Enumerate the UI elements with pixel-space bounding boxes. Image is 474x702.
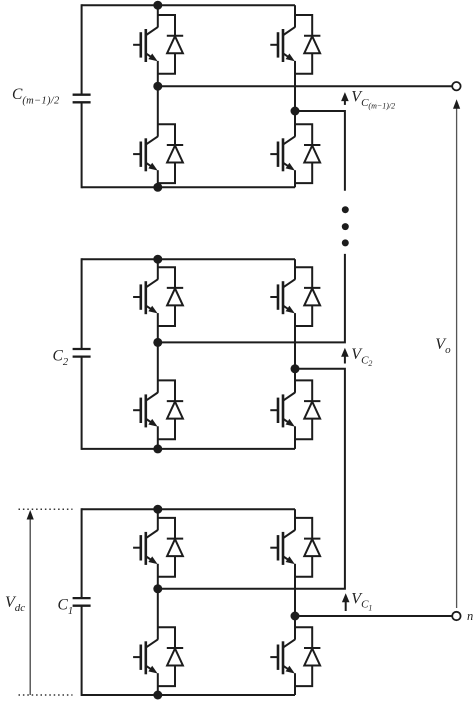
wire: emitter lead Q11 [157, 564, 159, 589]
wire: collector lead Q24 [294, 369, 296, 393]
wire: bridge 2 left rail lower [81, 357, 83, 450]
wire: collector lead Q11 [157, 509, 159, 530]
wire: emitter lead Q32 [157, 170, 159, 187]
capacitor C3 [73, 95, 91, 103]
igbt Q21 [133, 279, 158, 314]
wire: ellipsis down to A2 [158, 254, 345, 343]
wire: bridge 2 top rail [82, 258, 295, 260]
igbt Q12 [133, 639, 158, 674]
wire: diode branch top Q11 [158, 518, 175, 539]
diode D13 [304, 539, 320, 557]
voltage arrow V_C1 [342, 593, 350, 611]
wire: diode branch bottom Q31 [158, 53, 175, 74]
wire: diode branch bottom Q23 [295, 305, 312, 326]
node A1: bridge 1 left midpoint [153, 584, 162, 593]
wire: diode branch top Q14 [295, 627, 312, 648]
wire: collector lead Q33 [294, 5, 296, 27]
wire: bridge 2 left rail upper [81, 258, 83, 349]
igbt Q34 [270, 136, 295, 171]
dotted extension line top [19, 508, 73, 510]
wire: diode branch bottom Q21 [158, 305, 175, 326]
junction: bridge 3 top rail / left leg [153, 1, 162, 10]
diode D33 [304, 36, 320, 54]
ellipsis dot 3 [342, 239, 349, 246]
diode D21 [167, 288, 183, 306]
diode D11 [167, 539, 183, 557]
wire: emitter lead Q33 [294, 61, 296, 111]
node A3: bridge 3 left midpoint [153, 82, 162, 91]
diode D31 [167, 36, 183, 54]
wire: diode branch bottom Q12 [158, 666, 175, 687]
wire: diode branch bottom Q32 [158, 163, 175, 184]
wire: collector lead Q23 [294, 259, 296, 279]
wire: diode branch top Q34 [295, 124, 312, 145]
junction: bridge 2 top rail / left leg [153, 255, 162, 264]
ellipsis dot 1 [342, 206, 349, 213]
wire: bridge 1 top rail [82, 508, 295, 510]
wire: B2 down to A1 [158, 369, 345, 589]
diode D23 [304, 288, 320, 306]
wire: collector lead Q32 [157, 86, 159, 137]
wire: bridge 1 left rail lower [81, 606, 83, 696]
junction: bridge 2 bottom rail / left leg [153, 444, 162, 453]
dotted extension line bottom [19, 694, 73, 696]
wire: diode branch bottom Q11 [158, 556, 175, 577]
wire: B1 to terminal n [295, 615, 452, 617]
igbt Q24 [270, 393, 295, 428]
igbt Q11 [133, 530, 158, 565]
wire: diode branch bottom Q22 [158, 419, 175, 440]
voltage arrow V_C2 [341, 348, 349, 364]
diode D22 [167, 401, 183, 419]
capacitor C1 [73, 598, 91, 606]
wire: diode branch top Q13 [295, 518, 312, 539]
wire: diode branch bottom Q24 [295, 419, 312, 440]
wire: emitter lead Q23 [294, 313, 296, 369]
ellipsis dot 2 [342, 223, 349, 230]
wire: diode branch top Q22 [158, 380, 175, 401]
terminal n (output -) [452, 612, 460, 620]
igbt Q13 [270, 530, 295, 565]
wire: collector lead Q22 [157, 342, 159, 392]
voltage arrow V_dc [27, 510, 34, 695]
igbt Q33 [270, 27, 295, 62]
diode D12 [167, 648, 183, 666]
diode D32 [167, 145, 183, 163]
wire: diode branch top Q31 [158, 15, 175, 36]
wire: emitter lead Q24 [294, 426, 296, 449]
wire: B3 down to ellipsis [295, 111, 345, 191]
junction: bridge 1 bottom rail / left leg [153, 691, 162, 700]
wire: emitter lead Q21 [157, 313, 159, 342]
wire: bridge 3 left rail lower [81, 102, 83, 188]
wire: bridge 3 bottom rail [82, 186, 295, 188]
diode D14 [304, 648, 320, 666]
wire: collector lead Q31 [157, 5, 159, 27]
wire: diode branch top Q33 [295, 15, 312, 36]
wire: diode branch bottom Q33 [295, 53, 312, 74]
junction: bridge 3 bottom rail / left leg [153, 183, 162, 192]
wire: bridge 3 left rail upper [81, 4, 83, 95]
wire: emitter lead Q12 [157, 673, 159, 695]
svg-text:n: n [467, 609, 473, 623]
wire: diode branch top Q24 [295, 380, 312, 401]
wire: A3 output to terminal p [158, 85, 452, 87]
wire: collector lead Q14 [294, 616, 296, 640]
node B1: bridge 1 right midpoint [291, 612, 300, 621]
igbt Q32 [133, 136, 158, 171]
wire: bridge 2 bottom rail [82, 448, 295, 450]
wire: emitter lead Q14 [294, 673, 296, 695]
wire: diode branch bottom Q14 [295, 666, 312, 687]
diode D34 [304, 145, 320, 163]
voltage arrow V_o [453, 99, 460, 608]
node B3: bridge 3 right midpoint [291, 107, 300, 116]
wire: collector lead Q13 [294, 509, 296, 530]
node B2: bridge 2 right midpoint [291, 364, 300, 373]
wire: diode branch top Q12 [158, 627, 175, 648]
wire: diode branch bottom Q13 [295, 556, 312, 577]
wire: collector lead Q34 [294, 111, 296, 137]
wire: diode branch bottom Q34 [295, 163, 312, 184]
diode D24 [304, 401, 320, 419]
wire: emitter lead Q13 [294, 564, 296, 616]
wire: emitter lead Q34 [294, 170, 296, 187]
wire: emitter lead Q22 [157, 426, 159, 449]
igbt Q22 [133, 393, 158, 428]
node A2: bridge 2 left midpoint [153, 338, 162, 347]
igbt Q14 [270, 639, 295, 674]
wire: bridge 3 top rail [82, 4, 295, 6]
igbt Q31 [133, 27, 158, 62]
voltage arrow V_C(m-1)/2 [341, 92, 349, 105]
wire: bridge 1 bottom rail [82, 694, 295, 696]
wire: diode branch top Q23 [295, 267, 312, 288]
terminal p (output +) [452, 82, 460, 90]
wire: collector lead Q12 [157, 589, 159, 640]
junction: bridge 1 top rail / left leg [153, 505, 162, 514]
wire: bridge 1 left rail upper [81, 508, 83, 598]
wire: emitter lead Q31 [157, 61, 159, 86]
wire: diode branch top Q32 [158, 124, 175, 145]
wire: diode branch top Q21 [158, 267, 175, 288]
capacitor C2 [73, 349, 91, 357]
igbt Q23 [270, 279, 295, 314]
wire: collector lead Q21 [157, 259, 159, 279]
